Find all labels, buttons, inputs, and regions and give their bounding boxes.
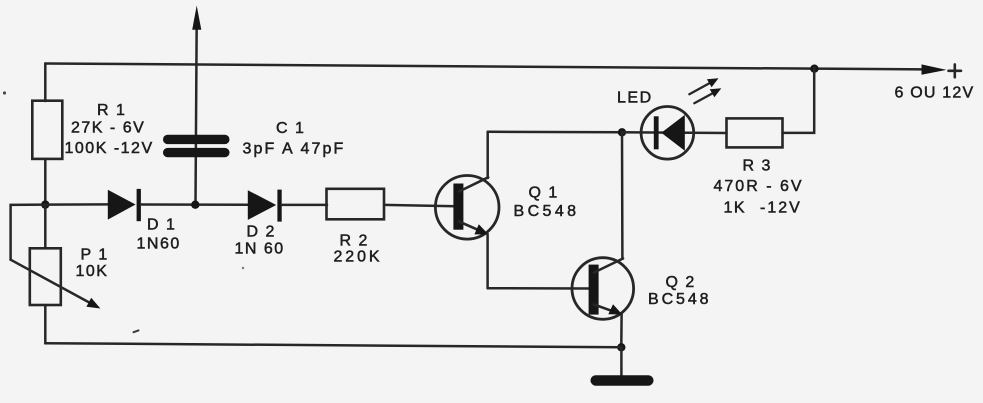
svg-text:C 1: C 1: [276, 120, 305, 137]
LED cathode bar: [654, 116, 659, 149]
wire left vertical from top rail to R1: [44, 64, 47, 102]
speck: [134, 330, 139, 332]
svg-text:3pF A 47pF: 3pF A 47pF: [243, 141, 346, 158]
svg-text:P 1: P 1: [81, 247, 109, 264]
wire Q1 emitter to Q2 base: [488, 287, 590, 290]
wire R1 bottom to junction A: [44, 159, 47, 205]
wire top supply rail: [45, 64, 924, 70]
svg-text:-12V: -12V: [760, 200, 802, 217]
svg-text:Q 1: Q 1: [529, 185, 559, 202]
node bottom junction: [617, 343, 625, 351]
svg-text:R 1: R 1: [97, 102, 126, 119]
wire junction A down to P1: [44, 205, 47, 249]
LED triangle: [661, 115, 685, 151]
transistor Q2: [572, 258, 634, 320]
capacitor C1 bottom plate: [163, 148, 230, 157]
svg-text:6 OU 12V: 6 OU 12V: [895, 85, 975, 102]
LED light arrow 1: [689, 78, 718, 94]
svg-text:220K: 220K: [334, 249, 383, 266]
led LED body: [641, 107, 694, 160]
wire bottom junction to ground: [620, 347, 623, 376]
svg-text:BC548: BC548: [514, 203, 580, 220]
wire R2 to Q1 base: [384, 205, 456, 206]
transistor Q1: [435, 176, 499, 240]
resistor R2: [327, 189, 385, 220]
svg-text:D 2: D 2: [247, 224, 276, 241]
svg-text:R 3: R 3: [743, 158, 772, 175]
wire R3 to supply rail: [783, 68, 815, 133]
svg-text:D 1: D 1: [147, 217, 176, 234]
svg-text:10K: 10K: [76, 263, 109, 280]
speck: [3, 91, 6, 94]
svg-text:27K - 6V: 27K - 6V: [71, 120, 145, 137]
svg-text:R 2: R 2: [340, 233, 369, 250]
ground: [591, 375, 654, 386]
wire Q2 emitter down to bottom rail: [620, 314, 623, 347]
wire up arrow (supply branch) vertical: [196, 20, 197, 205]
node LED row junction: [618, 128, 626, 136]
wire positive output arrowhead: [922, 64, 947, 74]
label + terminal: [949, 64, 962, 77]
resistor R3: [727, 118, 783, 147]
svg-text:1N60: 1N60: [137, 236, 181, 253]
node A (left junction): [41, 200, 49, 208]
svg-text:BC548: BC548: [648, 291, 711, 308]
wire Q1 collector up: [486, 132, 489, 178]
wire junction down to Q2 collector: [621, 132, 624, 258]
wire middle row: junction A to D1: [45, 203, 109, 206]
svg-text:1K: 1K: [724, 200, 747, 217]
svg-text:1N 60: 1N 60: [235, 241, 285, 258]
speck: [242, 267, 244, 269]
P1 wiper arrow: [11, 260, 89, 303]
node under C1: [191, 201, 199, 209]
diode D2: [248, 190, 276, 220]
potentiometer P1: [30, 248, 61, 305]
capacitor C1 top plate: [163, 135, 230, 144]
svg-text:Q 2: Q 2: [666, 274, 696, 291]
diode D1: [108, 190, 136, 220]
LED light arrow 2: [694, 88, 721, 103]
svg-text:LED: LED: [617, 90, 653, 107]
resistor R1: [32, 101, 62, 159]
wire D2 to R2: [282, 204, 327, 207]
wire P1 bottom to bottom rail: [44, 305, 47, 343]
led LED wire through: [622, 131, 727, 134]
node top-right supply junction: [810, 65, 818, 73]
svg-text:470R - 6V: 470R - 6V: [714, 178, 804, 195]
svg-text:100K -12V: 100K -12V: [65, 140, 154, 157]
wire collector row to LED junction: [488, 131, 622, 134]
wire wiper bypass (junction A to wiper): [11, 205, 46, 260]
wire bottom rail: [45, 343, 621, 347]
wire Q1 emitter down: [486, 234, 489, 288]
wire D1 to D2: [141, 203, 248, 206]
arrowhead up arrow: [192, 6, 201, 30]
